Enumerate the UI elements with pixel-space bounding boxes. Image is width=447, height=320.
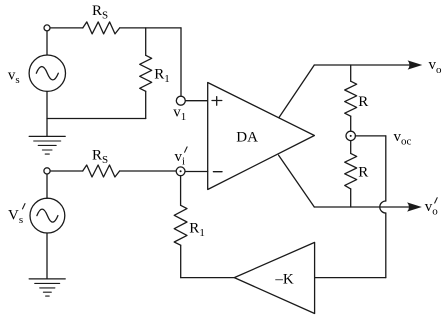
node junction RS R1 xyxy=(145,28,147,55)
wire xyxy=(185,171,208,173)
resistor R1 top xyxy=(140,55,152,91)
wire xyxy=(350,141,352,154)
wire hop over rail xyxy=(380,201,386,213)
svg-text:R1: R1 xyxy=(154,67,170,86)
wire xyxy=(46,233,48,279)
wire xyxy=(180,28,182,96)
plus input sign xyxy=(212,97,222,106)
arrowhead vo' xyxy=(407,202,422,211)
source Vs' xyxy=(30,198,65,233)
svg-text:RS: RS xyxy=(92,148,108,167)
svg-text:DA: DA xyxy=(236,130,258,146)
wire xyxy=(350,116,352,131)
wire DA lower output diagonal xyxy=(279,155,315,207)
prime of Vs' xyxy=(23,204,26,209)
source vs xyxy=(29,55,65,91)
wire top rail to vo xyxy=(314,64,414,66)
minus input sign xyxy=(213,171,222,173)
wire bottom rail to vo' xyxy=(314,206,413,208)
wire -K output xyxy=(181,277,235,279)
amplifier -K xyxy=(234,242,314,313)
svg-text:voc: voc xyxy=(394,129,412,148)
junction dot vi' xyxy=(180,170,182,172)
terminal circle top source xyxy=(44,25,50,31)
wire xyxy=(46,91,48,136)
node vi' xyxy=(176,167,185,176)
sine of source Vs' xyxy=(37,209,58,222)
svg-text:R: R xyxy=(358,165,368,181)
prime of vo' xyxy=(435,198,438,203)
svg-text:v1: v1 xyxy=(173,104,186,123)
sine of source vs xyxy=(36,67,58,80)
wire xyxy=(50,170,82,172)
svg-text:R1: R1 xyxy=(189,220,205,239)
wire xyxy=(385,136,387,201)
svg-text:–K: –K xyxy=(274,272,294,288)
svg-text:vo: vo xyxy=(429,57,443,76)
svg-text:R: R xyxy=(358,94,368,110)
svg-text:vo: vo xyxy=(425,199,439,218)
wire xyxy=(350,189,352,207)
wire -K input xyxy=(315,277,386,279)
svg-text:Vs: Vs xyxy=(8,208,23,227)
wire xyxy=(185,100,208,102)
wire xyxy=(46,174,48,198)
wire xyxy=(46,31,48,55)
ground top xyxy=(29,136,65,154)
wire voc to right xyxy=(355,135,385,137)
resistor R1 bottom xyxy=(174,205,187,245)
arrowhead vo xyxy=(408,60,423,69)
wire xyxy=(120,27,181,29)
wire xyxy=(180,176,182,205)
wire DA upper output diagonal xyxy=(279,65,314,118)
svg-text:vs: vs xyxy=(8,68,20,87)
resistor R lower xyxy=(345,153,357,189)
wire xyxy=(145,91,147,118)
wire xyxy=(47,118,146,120)
wire xyxy=(180,245,182,277)
node voc xyxy=(346,131,355,140)
svg-text:RS: RS xyxy=(92,3,108,22)
ground bottom xyxy=(29,279,65,296)
svg-text:vi: vi xyxy=(175,149,186,168)
wire xyxy=(385,213,387,278)
terminal circle bottom source xyxy=(44,168,50,174)
wire xyxy=(50,27,83,29)
resistor R upper xyxy=(345,81,357,116)
prime of vi' xyxy=(185,147,188,152)
resistor RS top xyxy=(83,22,120,34)
junction dot voc xyxy=(350,135,352,137)
op-amp DA xyxy=(208,83,315,190)
wire xyxy=(350,65,352,81)
wire xyxy=(120,170,177,172)
node v1 xyxy=(176,96,185,105)
resistor RS bottom xyxy=(83,165,120,177)
